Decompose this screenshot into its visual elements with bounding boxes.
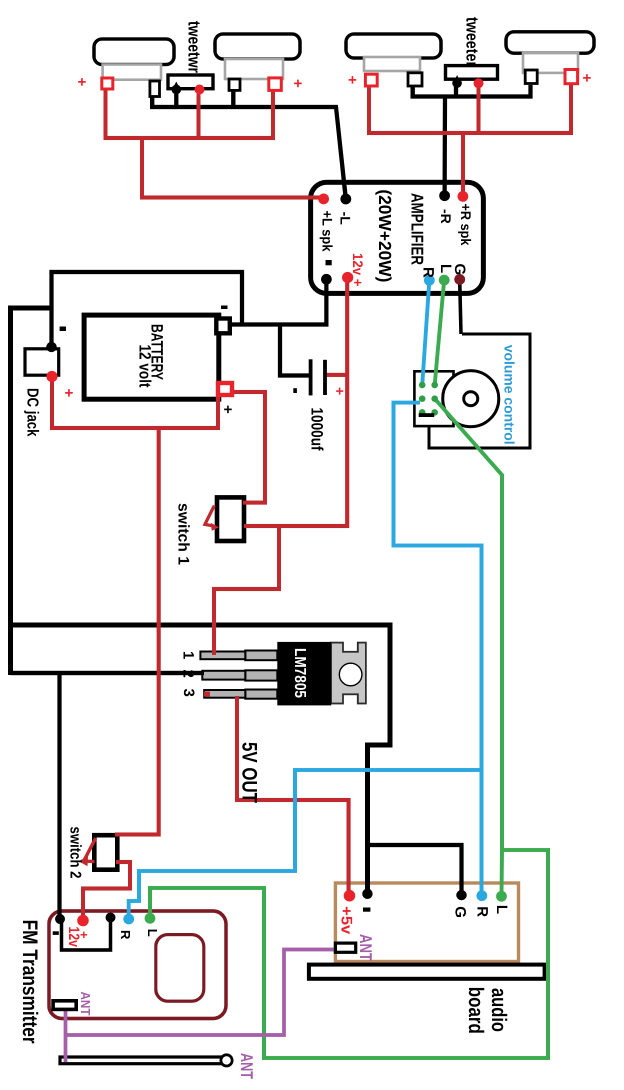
node FM R bbox=[123, 914, 134, 925]
svg-text:L: L bbox=[493, 905, 510, 914]
wire blue branch to FM R bbox=[129, 770, 482, 919]
wire battery plus to DC jack plus bbox=[52, 377, 218, 428]
speaker SP2 minus terminal bbox=[229, 79, 240, 90]
capacitor C1 plus plate bbox=[323, 360, 327, 395]
svg-text:+R spk: +R spk bbox=[458, 204, 474, 246]
pin pot 4 bbox=[431, 382, 438, 389]
speaker SP2 frame bbox=[225, 59, 283, 79]
svg-text:+: + bbox=[73, 78, 90, 87]
svg-text:R: R bbox=[420, 267, 437, 278]
FM ANT pad bbox=[53, 1001, 76, 1010]
svg-text:3: 3 bbox=[180, 689, 197, 697]
speaker SP3 body bbox=[346, 34, 441, 58]
wire ground frame top bbox=[11, 625, 391, 894]
node DC jack minus dot bbox=[46, 342, 56, 352]
svg-text:+: + bbox=[332, 387, 348, 395]
wire tweeter1 minus tap bbox=[174, 94, 178, 108]
svg-text:+: + bbox=[578, 74, 595, 83]
wire speaker black bus left group bbox=[152, 97, 346, 200]
wire battery plus to switch2 bbox=[115, 428, 159, 835]
wire tweeter2 minus tap bbox=[454, 87, 458, 97]
wire switch2 to FM 12v bbox=[83, 862, 130, 920]
wire amp minus to battery minus bbox=[230, 280, 326, 325]
audio board mounting bar bbox=[309, 965, 545, 979]
node FM 12v plus bbox=[77, 915, 89, 927]
wire switch1 to regulator pin1 bbox=[214, 526, 279, 655]
svg-text:+5v: +5v bbox=[338, 906, 355, 934]
regulator U1 leg 1 bbox=[245, 651, 277, 661]
node TW1 minus dot bbox=[171, 85, 181, 95]
svg-text:R: R bbox=[118, 930, 133, 940]
node audio L bbox=[496, 891, 507, 902]
audio board outline bbox=[335, 883, 518, 962]
switch SW1 body bbox=[217, 497, 244, 541]
node amp +R spk bbox=[458, 191, 469, 202]
wire regulator pin2 ground bbox=[11, 671, 205, 675]
svg-text:12v: 12v bbox=[65, 927, 82, 948]
svg-text:R: R bbox=[474, 906, 491, 917]
svg-text:-R: -R bbox=[438, 209, 454, 224]
speaker SP2 body bbox=[215, 34, 300, 59]
wire regulator 5V out to audio board bbox=[237, 696, 349, 894]
speaker SP1 body bbox=[94, 39, 174, 65]
label DC jack minus bbox=[60, 327, 66, 332]
node amp -R bbox=[439, 190, 450, 201]
battery minus terminal bbox=[216, 319, 230, 334]
node amp 12v plus bbox=[342, 272, 353, 283]
svg-text:1000uf: 1000uf bbox=[308, 408, 326, 451]
svg-text:L: L bbox=[145, 929, 160, 937]
wire tweeter1 plus tap bbox=[196, 94, 200, 138]
wire FM ANT pad to antenna (purple) bbox=[64, 1009, 68, 1062]
wire audio board G branch bbox=[367, 845, 462, 895]
svg-text:G: G bbox=[451, 906, 468, 918]
svg-text:-L: -L bbox=[338, 212, 354, 226]
svg-text:ANT: ANT bbox=[78, 992, 93, 1016]
svg-text:tweeter: tweeter bbox=[463, 17, 482, 67]
svg-text:+: + bbox=[219, 405, 236, 414]
pin pot 3 bbox=[419, 409, 426, 416]
node FM L bbox=[145, 913, 156, 924]
wire ground to FM minus bbox=[57, 671, 61, 918]
wire red bus to amp +L spk bbox=[142, 138, 324, 198]
speaker SP3 plus terminal bbox=[365, 74, 377, 86]
node audio minus bbox=[362, 889, 372, 899]
svg-text:board: board bbox=[464, 987, 487, 1034]
regulator U1 tab bbox=[331, 643, 366, 704]
svg-text:12 volt: 12 volt bbox=[136, 345, 154, 388]
node TW2 minus dot bbox=[452, 78, 462, 88]
wire ground frame left bbox=[11, 308, 52, 675]
audio ANT pad bbox=[335, 943, 355, 952]
wire FM minus jumper bbox=[62, 920, 111, 950]
wire red bus to amp +R spk bbox=[461, 133, 465, 196]
svg-text:AMPLIFIER: AMPLIFIER bbox=[408, 193, 427, 265]
node TW1 plus dot bbox=[195, 85, 205, 95]
pin pot 1 bbox=[419, 382, 426, 389]
speaker SP1 plus terminal bbox=[102, 78, 113, 89]
node FM minus bbox=[55, 914, 65, 924]
node amp L in bbox=[439, 275, 450, 286]
svg-text:audio: audio bbox=[487, 988, 510, 1032]
volume control box outline bbox=[429, 334, 530, 448]
label amp minus bbox=[326, 260, 332, 265]
wire speaker red bus left group bbox=[106, 89, 274, 138]
wire battery plus to switch1 bbox=[231, 392, 265, 503]
switch SW2 lever bbox=[84, 838, 96, 862]
switch SW1 lever bbox=[205, 506, 214, 526]
potentiometer shaft circle bbox=[464, 392, 478, 406]
potentiometer body circle bbox=[443, 371, 499, 427]
svg-text:switch 2: switch 2 bbox=[67, 827, 84, 879]
wire amp -R to bus bbox=[442, 97, 447, 197]
wire tweeter2 plus tap bbox=[476, 86, 480, 133]
speaker SP4 minus terminal bbox=[525, 70, 537, 84]
regulator U1 body bbox=[277, 642, 331, 706]
svg-text:ANT: ANT bbox=[356, 934, 375, 961]
wire amp G to volume control bbox=[460, 280, 461, 334]
op-amp module U2 amplifier box bbox=[311, 182, 484, 293]
label audio minus bbox=[363, 908, 370, 912]
svg-text:2: 2 bbox=[180, 670, 197, 678]
switch SW1 lever arrowhead bbox=[211, 523, 219, 531]
capacitor C1 minus plate bbox=[309, 359, 313, 395]
wire speaker red bus right group bbox=[369, 84, 571, 133]
speaker SP3 minus terminal bbox=[408, 73, 422, 86]
regulator U1 tab hole bbox=[339, 663, 362, 686]
wire capacitor minus lead bbox=[280, 325, 311, 376]
node amp +L spk bbox=[318, 194, 329, 205]
speaker SP4 body bbox=[506, 32, 594, 53]
svg-text:5V OUT: 5V OUT bbox=[238, 742, 261, 803]
wire amp L to volume pot (green) bbox=[435, 280, 445, 385]
svg-text:LM7805: LM7805 bbox=[291, 648, 308, 698]
svg-text:+: + bbox=[60, 389, 77, 398]
svg-text:1: 1 bbox=[180, 651, 197, 659]
node amp G in bbox=[454, 274, 465, 285]
node DC jack plus dot bbox=[46, 371, 57, 382]
wire amp 12v feed from switch1 bbox=[244, 278, 347, 527]
node audio R bbox=[476, 890, 487, 901]
battery plus terminal bbox=[218, 383, 232, 395]
wire purple branch to audio board ANT bbox=[66, 950, 339, 1036]
wire speaker2 minus tap bbox=[231, 90, 235, 108]
wire speaker black bus right group bbox=[413, 85, 531, 97]
speaker SP2 plus terminal bbox=[269, 78, 282, 91]
wire battery minus to DC jack bbox=[52, 272, 243, 347]
speaker SP3 frame bbox=[364, 57, 420, 71]
pin pot 2 bbox=[419, 395, 426, 402]
label FM minus bbox=[53, 931, 59, 935]
potentiometer connector block bbox=[414, 371, 453, 426]
svg-text:volume control: volume control bbox=[502, 345, 518, 445]
speaker SP4 frame bbox=[523, 53, 578, 73]
antenna bar bbox=[60, 1057, 225, 1064]
pin pot 6 bbox=[431, 409, 438, 416]
svg-text:ANT: ANT bbox=[237, 1053, 256, 1079]
speaker SP1 minus terminal bbox=[150, 81, 160, 97]
node amp -L bbox=[340, 194, 351, 205]
svg-text:+: + bbox=[289, 79, 306, 88]
tweeter TW1 body bbox=[168, 75, 213, 89]
svg-text:FM Transmitter: FM Transmitter bbox=[18, 920, 41, 1044]
svg-text:+: + bbox=[344, 76, 361, 85]
regulator U1 leg 2 bbox=[245, 670, 277, 680]
battery BT1 box bbox=[84, 315, 219, 399]
regulator pin3 tip mark bbox=[204, 692, 210, 697]
antenna ball end bbox=[221, 1055, 232, 1066]
connector DC jack box bbox=[25, 349, 59, 375]
wire amp R to volume pot (blue) bbox=[422, 281, 429, 385]
wire volume pot to audio board R (blue) bbox=[394, 403, 482, 894]
switch SW2 lever arrowhead bbox=[79, 856, 89, 866]
label capacitor minus bbox=[293, 388, 297, 393]
node audio G bbox=[456, 890, 466, 900]
pin pot 5 bbox=[431, 395, 438, 402]
node TW2 plus dot bbox=[474, 78, 484, 88]
wire green branch to FM L bbox=[150, 850, 548, 1058]
wire capacitor plus stub bbox=[325, 373, 347, 377]
svg-text:G: G bbox=[451, 264, 468, 276]
wire volume pot to audio board L (green) bbox=[435, 399, 502, 894]
svg-text:(20W+20W): (20W+20W) bbox=[375, 189, 395, 282]
node amp minus bbox=[321, 274, 332, 285]
node FM minus 2 bbox=[106, 913, 116, 923]
pot polarity mark bbox=[419, 413, 435, 417]
svg-text:tweetwr: tweetwr bbox=[185, 21, 204, 73]
svg-text:switch 1: switch 1 bbox=[175, 503, 192, 565]
speaker SP1 frame bbox=[103, 65, 161, 80]
svg-text:12v +: 12v + bbox=[350, 253, 366, 287]
regulator U1 leg 3 bbox=[245, 690, 277, 699]
speaker SP4 plus terminal bbox=[565, 70, 578, 84]
svg-text:DC jack: DC jack bbox=[24, 388, 41, 437]
node audio +5v bbox=[344, 890, 356, 902]
label battery minus bbox=[221, 306, 228, 310]
svg-text:+L spk: +L spk bbox=[320, 211, 336, 252]
FM transmitter board outline bbox=[49, 911, 226, 1019]
switch SW2 body bbox=[94, 835, 117, 870]
tweeter TW2 body bbox=[446, 66, 498, 80]
node amp R in bbox=[424, 275, 435, 286]
FM transmitter inner block bbox=[156, 935, 204, 1002]
